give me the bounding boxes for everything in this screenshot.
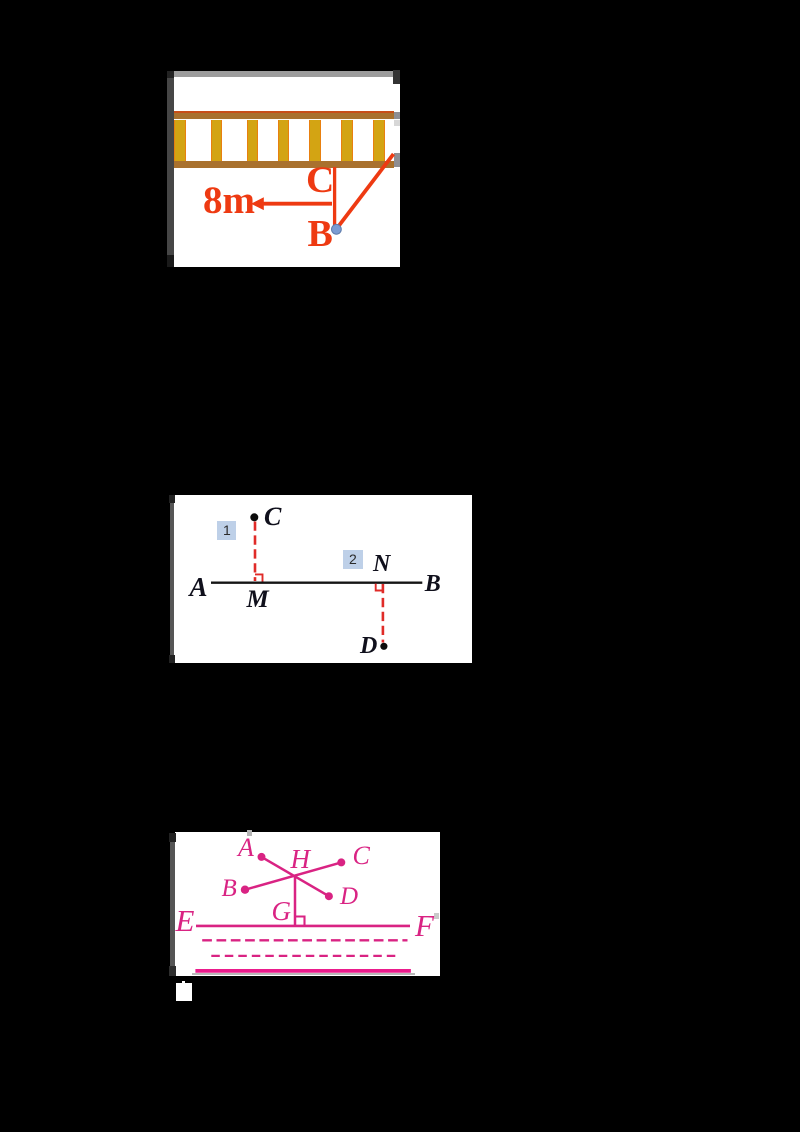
figure 1 left dark column	[167, 78, 174, 258]
point C dot	[250, 513, 258, 521]
figure 1 top gray strip	[174, 71, 396, 77]
dashed line 1	[202, 939, 407, 941]
figure 1 line work	[173, 77, 400, 267]
dashed perpendicular CM	[254, 522, 257, 582]
label G	[272, 898, 292, 925]
label B (figure 3)	[222, 876, 237, 901]
figure 3 line work	[175, 832, 440, 976]
bridge gold post 2	[211, 120, 223, 162]
small white square below figure 3	[176, 983, 192, 1001]
label C (figure 1)	[306, 162, 334, 199]
figure 1 top-left dark tip	[167, 71, 174, 78]
bridge gold post 1	[174, 120, 186, 162]
dashed line 2	[211, 955, 398, 957]
label A (figure 2)	[190, 574, 208, 601]
gray speck above figure 3	[247, 830, 252, 835]
point D dot	[380, 643, 387, 650]
figure 3 left gray column	[170, 841, 175, 966]
diagonal rope from B to bridge	[338, 154, 394, 228]
arrow shaft of 8m dimension	[258, 202, 332, 206]
figure 1 bottom-left dark tip	[167, 255, 174, 267]
right angle mark at N	[376, 584, 383, 591]
badge 1 blue box	[217, 521, 236, 540]
figure 1 white background	[173, 77, 400, 267]
point D dot (figure 3)	[325, 892, 333, 900]
point A dot (figure 3)	[258, 853, 266, 861]
gray strip under thick line	[192, 973, 415, 976]
bridge gold post 7	[373, 120, 385, 162]
figure 3 bottom-left dark tip	[169, 966, 176, 976]
bridge deck top red line	[174, 111, 394, 113]
label C (figure 2)	[264, 504, 281, 530]
label A (figure 3)	[238, 835, 254, 861]
figure 2 line work	[174, 495, 472, 663]
label B (figure 1)	[308, 215, 333, 253]
right angle mark at M	[255, 574, 263, 581]
point C dot (figure 3)	[337, 858, 345, 866]
gray speck near F	[434, 913, 439, 919]
right angle mark at G	[295, 917, 305, 926]
label 8m	[203, 181, 255, 220]
figure 1 top-right dark tip	[393, 70, 400, 84]
segment BC through H	[245, 862, 341, 889]
small white notch on square	[182, 981, 186, 984]
label D (figure 2)	[360, 634, 377, 658]
line EF	[196, 925, 410, 928]
figure 2 top-left dark tip	[169, 495, 175, 503]
figure 2 white background	[174, 495, 472, 663]
label E	[176, 905, 195, 936]
dashed perpendicular ND	[382, 584, 385, 643]
bridge gold post 3	[247, 120, 259, 162]
bridge gold post 4	[278, 120, 290, 162]
figure 3 white background	[175, 832, 440, 976]
label C (figure 3)	[353, 843, 370, 869]
point B dot (figure 3)	[241, 886, 249, 894]
label B (figure 2)	[425, 572, 441, 596]
bridge gold post 6	[341, 120, 353, 162]
figure 3 top-left dark tip	[169, 833, 176, 842]
bridge top gray stub	[394, 112, 401, 119]
segment AD through H	[262, 857, 329, 896]
point B blue dot	[332, 224, 342, 234]
bridge top brown bar	[174, 113, 394, 119]
label M	[247, 587, 269, 612]
label F	[415, 910, 434, 941]
bridge bottom gray stub	[394, 153, 401, 167]
thick bottom line	[195, 969, 411, 973]
light gray speck right of posts	[394, 120, 401, 126]
label D (figure 3)	[340, 884, 358, 909]
label H	[291, 846, 311, 873]
arrow head pointing left	[251, 197, 264, 210]
line AB	[211, 582, 422, 584]
label N	[373, 552, 390, 576]
bridge gold post 5	[309, 120, 321, 162]
figure 2 bottom-left dark tip	[169, 655, 175, 663]
segment CB vertical red line	[333, 167, 336, 229]
figure 2 left dark column	[170, 495, 175, 663]
bridge bottom brown bar	[174, 161, 394, 168]
badge 2 blue box	[343, 550, 363, 569]
perpendicular HG	[294, 876, 297, 927]
